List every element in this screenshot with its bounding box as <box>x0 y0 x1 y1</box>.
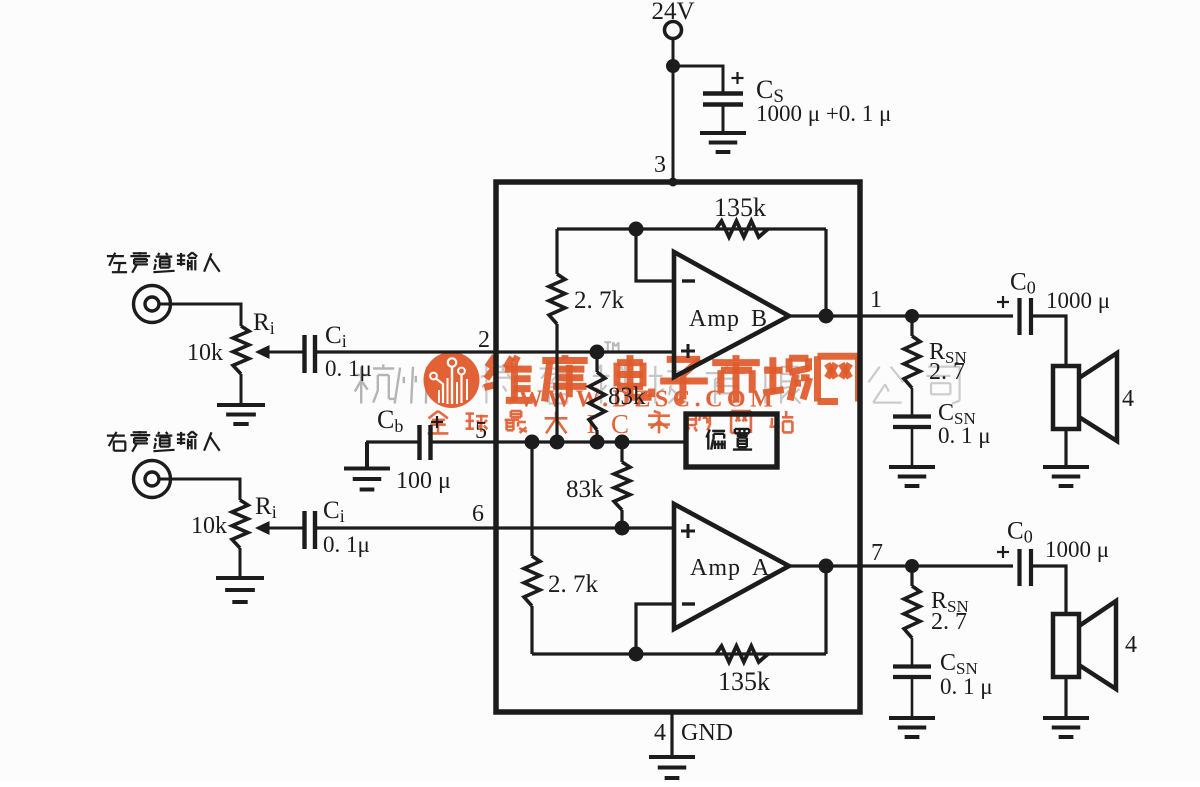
svg-text:10k: 10k <box>191 513 227 539</box>
svg-text:C: C <box>611 409 629 439</box>
wire Amp B feedback top <box>557 227 826 230</box>
svg-text:AmpA: AmpA <box>690 555 770 581</box>
ground below pot upper <box>217 403 265 407</box>
node 83k upper junction <box>590 345 605 360</box>
wire supply to IC pin 3 <box>672 66 675 182</box>
IC package box <box>496 182 860 712</box>
Ri wiper arrow lower <box>265 527 303 530</box>
wire feedback right down <box>824 229 827 316</box>
svg-text:2. 7: 2. 7 <box>931 609 967 635</box>
label right channel input <box>107 435 125 437</box>
node Amp A output junction <box>819 559 834 574</box>
wire 24V to junction <box>672 39 675 67</box>
op-amp Amp A <box>674 504 789 629</box>
svg-text:1000 μ: 1000 μ <box>1045 537 1109 562</box>
capacitor CSN lower <box>893 664 931 668</box>
ground below speaker upper <box>1043 465 1089 469</box>
svg-text:0. 1 μ: 0. 1 μ <box>940 674 993 699</box>
node supply junction <box>666 59 680 73</box>
wire Amp A feedback bottom <box>532 652 826 655</box>
resistor 83k (lower) <box>620 442 623 462</box>
24V supply terminal <box>665 22 682 39</box>
wire junction down to minus input <box>636 229 674 281</box>
label left channel input <box>107 255 124 257</box>
wire connector to pot lower <box>159 479 240 500</box>
svg-text:0. 1μ: 0. 1μ <box>323 532 370 557</box>
ground symbol pin 4 <box>649 755 695 759</box>
svg-text:135k: 135k <box>714 193 766 222</box>
watermark logo circle <box>424 352 480 408</box>
svg-text:4: 4 <box>1122 386 1134 412</box>
wire feedback right up to output <box>824 566 827 654</box>
wire pin 6 input to plus input <box>315 526 674 529</box>
resistor 135k (bottom) <box>716 646 768 662</box>
wire C0 to speaker upper <box>1031 316 1066 366</box>
node feedback/minus junction <box>629 222 644 237</box>
potentiometer Ri lower <box>232 500 248 548</box>
node feedback bottom junction <box>629 647 644 662</box>
wire Amp A output <box>790 564 1013 567</box>
svg-text:2. 7: 2. 7 <box>929 359 965 385</box>
svg-text:83k: 83k <box>608 383 646 410</box>
wire bias rail pin 5 <box>430 440 686 443</box>
wire pin 4 to ground <box>670 712 673 756</box>
node bias 2.7k-upper junction <box>550 435 565 450</box>
ground for Cb <box>365 442 369 467</box>
svg-text:1000 μ: 1000 μ <box>1046 288 1110 313</box>
node bias 83k-lower junction <box>615 435 630 450</box>
svg-text:100 μ: 100 μ <box>396 468 451 494</box>
wire minus input Amp A <box>636 604 674 654</box>
wire speaker to ground lower <box>1064 677 1067 717</box>
speaker upper <box>1053 366 1079 429</box>
capacitor CS <box>703 91 743 96</box>
svg-text:2. 7k: 2. 7k <box>548 571 599 598</box>
wire to capacitor CS <box>673 66 723 92</box>
resistor 2.7k (upper) <box>555 229 558 274</box>
wire speaker to ground upper <box>1064 429 1067 466</box>
Ri wiper arrow upper <box>266 351 303 354</box>
node bias Cb junction <box>525 435 540 450</box>
resistor 2.7k (lower) <box>530 442 533 556</box>
connector left input <box>134 286 171 323</box>
watermark slogan 全球最大IC采购网站 <box>428 411 794 433</box>
node feedback right junction <box>819 309 834 324</box>
svg-text:3: 3 <box>654 152 666 178</box>
ground below speaker lower <box>1043 716 1089 720</box>
capacitor CSN upper <box>893 414 931 418</box>
capacitor Cb <box>417 425 421 460</box>
capacitor Ci lower <box>302 511 306 549</box>
resistor 83k (upper) <box>595 352 598 372</box>
svg-text:4: 4 <box>654 720 666 746</box>
node bias 83k-upper junction <box>590 435 605 450</box>
wire C0 to speaker lower <box>1031 566 1066 614</box>
ground below CSN upper <box>889 465 935 469</box>
svg-text:AmpB: AmpB <box>689 306 768 332</box>
svg-text:2. 7k: 2. 7k <box>574 287 625 314</box>
svg-text:4: 4 <box>1125 632 1137 658</box>
node 83k lower junction <box>615 521 630 536</box>
bias block 偏置 <box>686 414 777 467</box>
svg-text:83k: 83k <box>566 476 604 503</box>
svg-text:6: 6 <box>472 501 484 527</box>
watermark gray company name 杭州...有限公司 <box>354 342 960 404</box>
svg-text:135k: 135k <box>718 667 770 696</box>
connector right input <box>134 461 171 498</box>
svg-text:0. 1μ: 0. 1μ <box>325 356 372 381</box>
svg-text:1: 1 <box>870 287 882 313</box>
svg-text:1000 μ +0. 1 μ: 1000 μ +0. 1 μ <box>756 101 891 126</box>
ground below pot lower <box>216 576 264 580</box>
capacitor C0 lower <box>1017 549 1021 586</box>
op-amp Amp B <box>674 252 789 377</box>
svg-text:0. 1 μ: 0. 1 μ <box>938 423 991 448</box>
node snubber junction lower <box>905 559 919 573</box>
svg-text:GND: GND <box>681 720 733 746</box>
potentiometer Ri upper <box>233 326 249 374</box>
resistor 135k (top) <box>716 221 768 237</box>
node pin3 at IC edge <box>669 178 678 187</box>
svg-text:10k: 10k <box>187 340 223 366</box>
wire connector to pot upper <box>159 304 241 326</box>
svg-text:2: 2 <box>478 327 490 353</box>
wire pin 2 input to plus input <box>315 350 674 353</box>
svg-text:7: 7 <box>871 540 883 566</box>
ground below CS <box>700 131 746 135</box>
capacitor Ci upper <box>302 335 306 373</box>
svg-text:24V: 24V <box>651 0 694 25</box>
capacitor C0 upper <box>1017 298 1021 335</box>
resistor RSN lower <box>910 566 913 586</box>
ground below CSN lower <box>889 716 935 720</box>
watermark orange text 维库电子市场网 <box>484 355 858 403</box>
resistor RSN upper <box>910 316 913 336</box>
svg-text:5: 5 <box>475 418 487 444</box>
speaker lower <box>1053 614 1079 677</box>
node snubber junction upper <box>905 309 919 323</box>
wire Amp B output <box>790 314 1013 317</box>
